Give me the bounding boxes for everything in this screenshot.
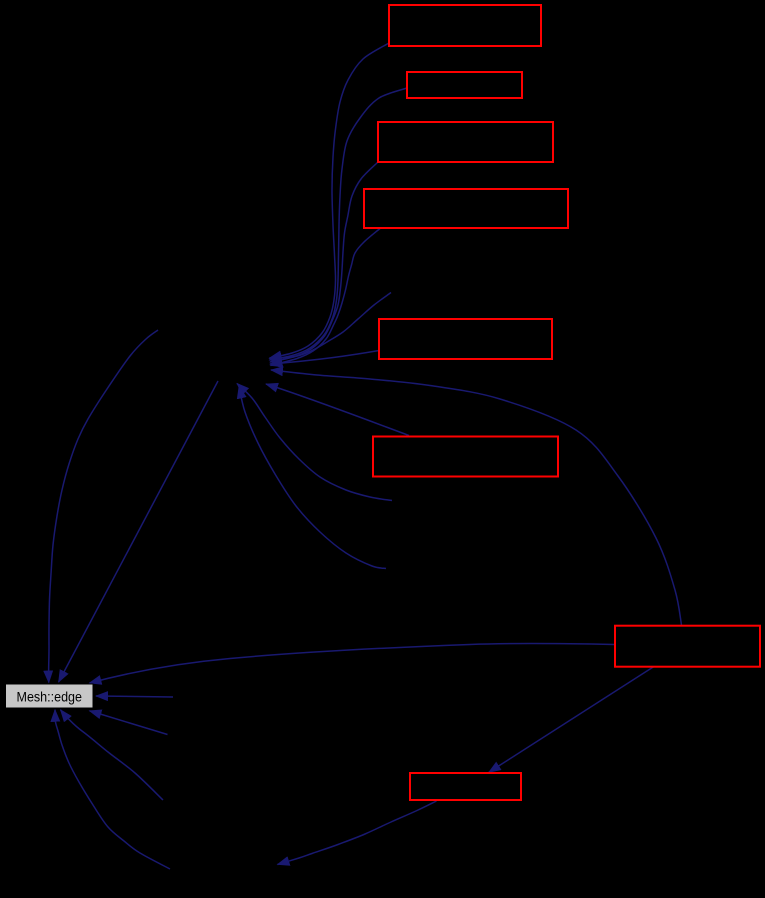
wire: hub B down to Mesh::edge	[59, 381, 218, 682]
node box R4	[364, 189, 568, 228]
svg-text:Mesh::edge: Mesh::edge	[17, 690, 83, 706]
wire: long flat curve box R7 to Mesh::edge	[90, 643, 615, 683]
wire: edge box R5 to hub A	[270, 351, 379, 365]
node box R8	[410, 773, 521, 800]
node Mesh::edge	[6, 684, 94, 708]
node box R5	[379, 319, 552, 359]
wire: edge box R6 to hub A	[266, 384, 409, 436]
wire: hidden node I to Mesh::edge bottom	[61, 710, 164, 800]
wire: edge hidden node F to hub B	[237, 384, 392, 501]
wire: edge box R1 to hidden hub A	[270, 43, 390, 358]
wire: hidden node D2 diagonal to Mesh::edge	[90, 711, 168, 735]
node box R6	[373, 437, 558, 477]
node box R7	[615, 626, 760, 667]
wire: hidden node D horizontal arrow to Mesh::edge	[96, 696, 173, 697]
node box R3	[378, 122, 553, 162]
wire: edge hidden node G to hub B	[239, 387, 386, 569]
node box R2	[407, 72, 522, 98]
wire: box R7 down to box R8	[489, 667, 654, 773]
wire: box R8 to hidden node H	[278, 801, 437, 865]
wire: edge hidden node C to hub A	[270, 293, 392, 359]
wire: hidden node H big curve to Mesh::edge bottom	[55, 710, 170, 869]
wire: edge box R4 to hidden hub A	[271, 229, 381, 366]
wire: long arc box R7 to hub A	[271, 370, 682, 625]
wire: edge box R2 to hidden hub A	[270, 88, 408, 360]
wire: hidden node E curve down to Mesh::edge	[49, 330, 158, 683]
node box R1	[389, 5, 541, 46]
wire: edge box R3 to hidden hub A	[270, 162, 378, 362]
